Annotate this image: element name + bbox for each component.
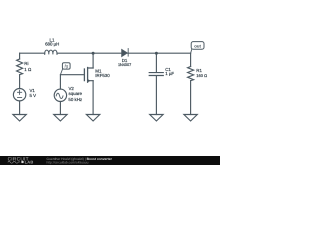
diode D1 bbox=[122, 49, 129, 57]
wire M1 drain bbox=[92, 53, 94, 68]
wire top rail left bbox=[20, 52, 45, 54]
ground (R1) bbox=[184, 115, 197, 122]
capacitor C1 bbox=[149, 73, 163, 76]
svg-text:1 Ω: 1 Ω bbox=[24, 67, 32, 72]
svg-text:1 µF: 1 µF bbox=[165, 71, 174, 76]
footer logo squiggle bbox=[8, 161, 20, 163]
wire top rail right bbox=[128, 52, 191, 54]
resistor R1 bbox=[188, 67, 194, 81]
svg-text:http://circuitlab.com/c49uauu: http://circuitlab.com/c49uauu bbox=[47, 160, 89, 164]
svg-text:1N4007: 1N4007 bbox=[118, 63, 131, 67]
svg-text:5 V: 5 V bbox=[30, 93, 37, 98]
voltage source V2 bbox=[54, 89, 66, 101]
wire V2 to gate bbox=[60, 75, 84, 89]
labels bbox=[24, 38, 207, 102]
wire V1 to ground bbox=[19, 101, 21, 115]
ground (M1) bbox=[86, 115, 99, 122]
wire Ri to V1 bbox=[19, 75, 21, 89]
svg-text:680 µH: 680 µH bbox=[45, 42, 59, 47]
resistor Ri bbox=[17, 59, 23, 75]
wire V2 to ground bbox=[59, 102, 61, 115]
node flag fg box bbox=[62, 63, 70, 69]
junction node at M1 drain bbox=[92, 52, 95, 55]
ground (V2) bbox=[54, 115, 67, 122]
node flag out leader bbox=[191, 49, 192, 53]
inductor L1 bbox=[45, 50, 57, 54]
ground (V1) bbox=[13, 115, 26, 122]
wire left column top bbox=[19, 53, 21, 59]
svg-text:fg: fg bbox=[65, 64, 69, 69]
svg-text:50 kHz: 50 kHz bbox=[68, 97, 82, 102]
wire top rail mid bbox=[57, 52, 121, 54]
footer bar bbox=[0, 156, 220, 165]
svg-text:square: square bbox=[69, 91, 83, 96]
wire R1 bottom bbox=[190, 81, 192, 115]
svg-text:Ri: Ri bbox=[24, 61, 28, 66]
transistor M1 bbox=[84, 68, 93, 83]
ground (C1) bbox=[150, 115, 163, 122]
wire C1 top bbox=[155, 53, 157, 72]
wire C1 bottom bbox=[155, 76, 157, 115]
svg-text:160 Ω: 160 Ω bbox=[196, 73, 207, 78]
node flag fg leader bbox=[60, 69, 62, 75]
svg-text:LAB: LAB bbox=[25, 160, 34, 165]
junction node at C1 bbox=[155, 52, 158, 55]
wire M1 source bbox=[92, 81, 94, 115]
wire R1 top bbox=[190, 53, 192, 66]
footer logo LAB bbox=[21, 161, 23, 163]
voltage source V1 bbox=[13, 89, 25, 101]
svg-text:IRF530: IRF530 bbox=[95, 73, 110, 78]
svg-text:out: out bbox=[194, 43, 201, 48]
node flag out box bbox=[191, 42, 204, 50]
